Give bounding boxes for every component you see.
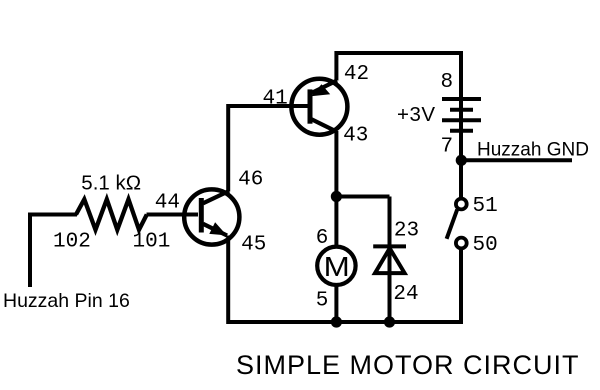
svg-text:8: 8 <box>441 71 454 94</box>
motor M1 body circle <box>317 247 355 285</box>
switch S1 terminal circle 50 <box>456 238 467 249</box>
svg-text:Huzzah Pin 16: Huzzah Pin 16 <box>3 290 130 312</box>
wire: motor stem bottom <box>334 285 338 322</box>
transistor Q1 body circle (NPN) <box>184 189 239 244</box>
battery BT1 long plate bottom <box>442 118 481 122</box>
junction dot: diode bottom on rail <box>384 316 395 327</box>
svg-text:M: M <box>324 252 350 283</box>
switch S1 lever <box>447 210 458 239</box>
wire: battery vertical <box>459 51 463 162</box>
transistor Q2 emitter arrow (PNP, pointing in) <box>311 84 330 96</box>
svg-text:44: 44 <box>155 191 180 214</box>
svg-text:5.1 kΩ: 5.1 kΩ <box>81 172 141 195</box>
transistor Q1 base bar <box>199 198 204 233</box>
svg-text:51: 51 <box>473 195 498 218</box>
battery BT1 short plate lower <box>450 129 473 133</box>
svg-text:41: 41 <box>263 87 288 110</box>
battery BT1 long plate top <box>442 97 481 101</box>
resistor R1 5.1 kOhm zigzag <box>76 199 147 230</box>
wire: motor stem top <box>334 197 338 248</box>
wire: diode branch vertical <box>388 197 392 323</box>
junction dot: motor/diode branch <box>331 191 342 202</box>
transistor Q1 emitter diagonal <box>203 224 227 236</box>
transistor Q2 body circle (PNP) <box>291 79 347 135</box>
wire: Q1 emitter down, bottom rail, up to switch <box>228 236 461 323</box>
svg-text:23: 23 <box>394 219 419 242</box>
transistor Q1 collector diagonal <box>203 191 229 203</box>
svg-text:24: 24 <box>393 283 418 306</box>
svg-text:42: 42 <box>344 63 369 86</box>
wire: resistor to Q1 base <box>147 213 199 217</box>
svg-text:102: 102 <box>53 230 91 253</box>
svg-text:50: 50 <box>473 234 498 257</box>
motor letter M <box>324 252 350 283</box>
wire: Huzzah GND horizontal <box>461 158 572 162</box>
svg-text:5: 5 <box>316 289 329 312</box>
svg-text:+3V: +3V <box>397 103 436 126</box>
wire: Q2 collector down to motor junction <box>334 131 338 197</box>
junction dot: GND node <box>456 155 467 166</box>
svg-text:SIMPLE MOTOR CIRCUIT: SIMPLE MOTOR CIRCUIT <box>236 350 580 380</box>
wire: Q1 collector riser and Q2 base wire <box>228 106 307 192</box>
wire: Q2 emitter up + top rail to battery <box>336 53 461 81</box>
svg-text:101: 101 <box>133 230 171 253</box>
transistor Q2 emitter diagonal (top) <box>312 81 337 93</box>
svg-text:7: 7 <box>441 135 454 158</box>
wire: battery to switch <box>459 160 463 198</box>
svg-text:46: 46 <box>238 168 263 191</box>
diode D1 cathode bar <box>373 244 406 248</box>
junction dot: motor bottom on rail <box>331 316 342 327</box>
battery BT1 short plate upper <box>450 108 473 112</box>
transistor Q1 emitter arrow (NPN, pointing out) <box>209 222 227 235</box>
wire: junction branch to diode <box>336 195 390 199</box>
transistor Q2 base bar <box>308 89 313 123</box>
transistor Q2 collector diagonal (bottom) <box>312 119 338 132</box>
diode D1 triangle (anode, pointing up) <box>375 248 405 273</box>
svg-text:6: 6 <box>316 227 329 250</box>
svg-text:43: 43 <box>343 124 368 147</box>
wire: Huzzah Pin 16 lead (horizontal + vertical drop) <box>30 215 77 288</box>
svg-text:Huzzah GND: Huzzah GND <box>477 139 589 160</box>
svg-text:45: 45 <box>241 233 266 256</box>
switch S1 terminal circle 51 <box>456 199 467 210</box>
